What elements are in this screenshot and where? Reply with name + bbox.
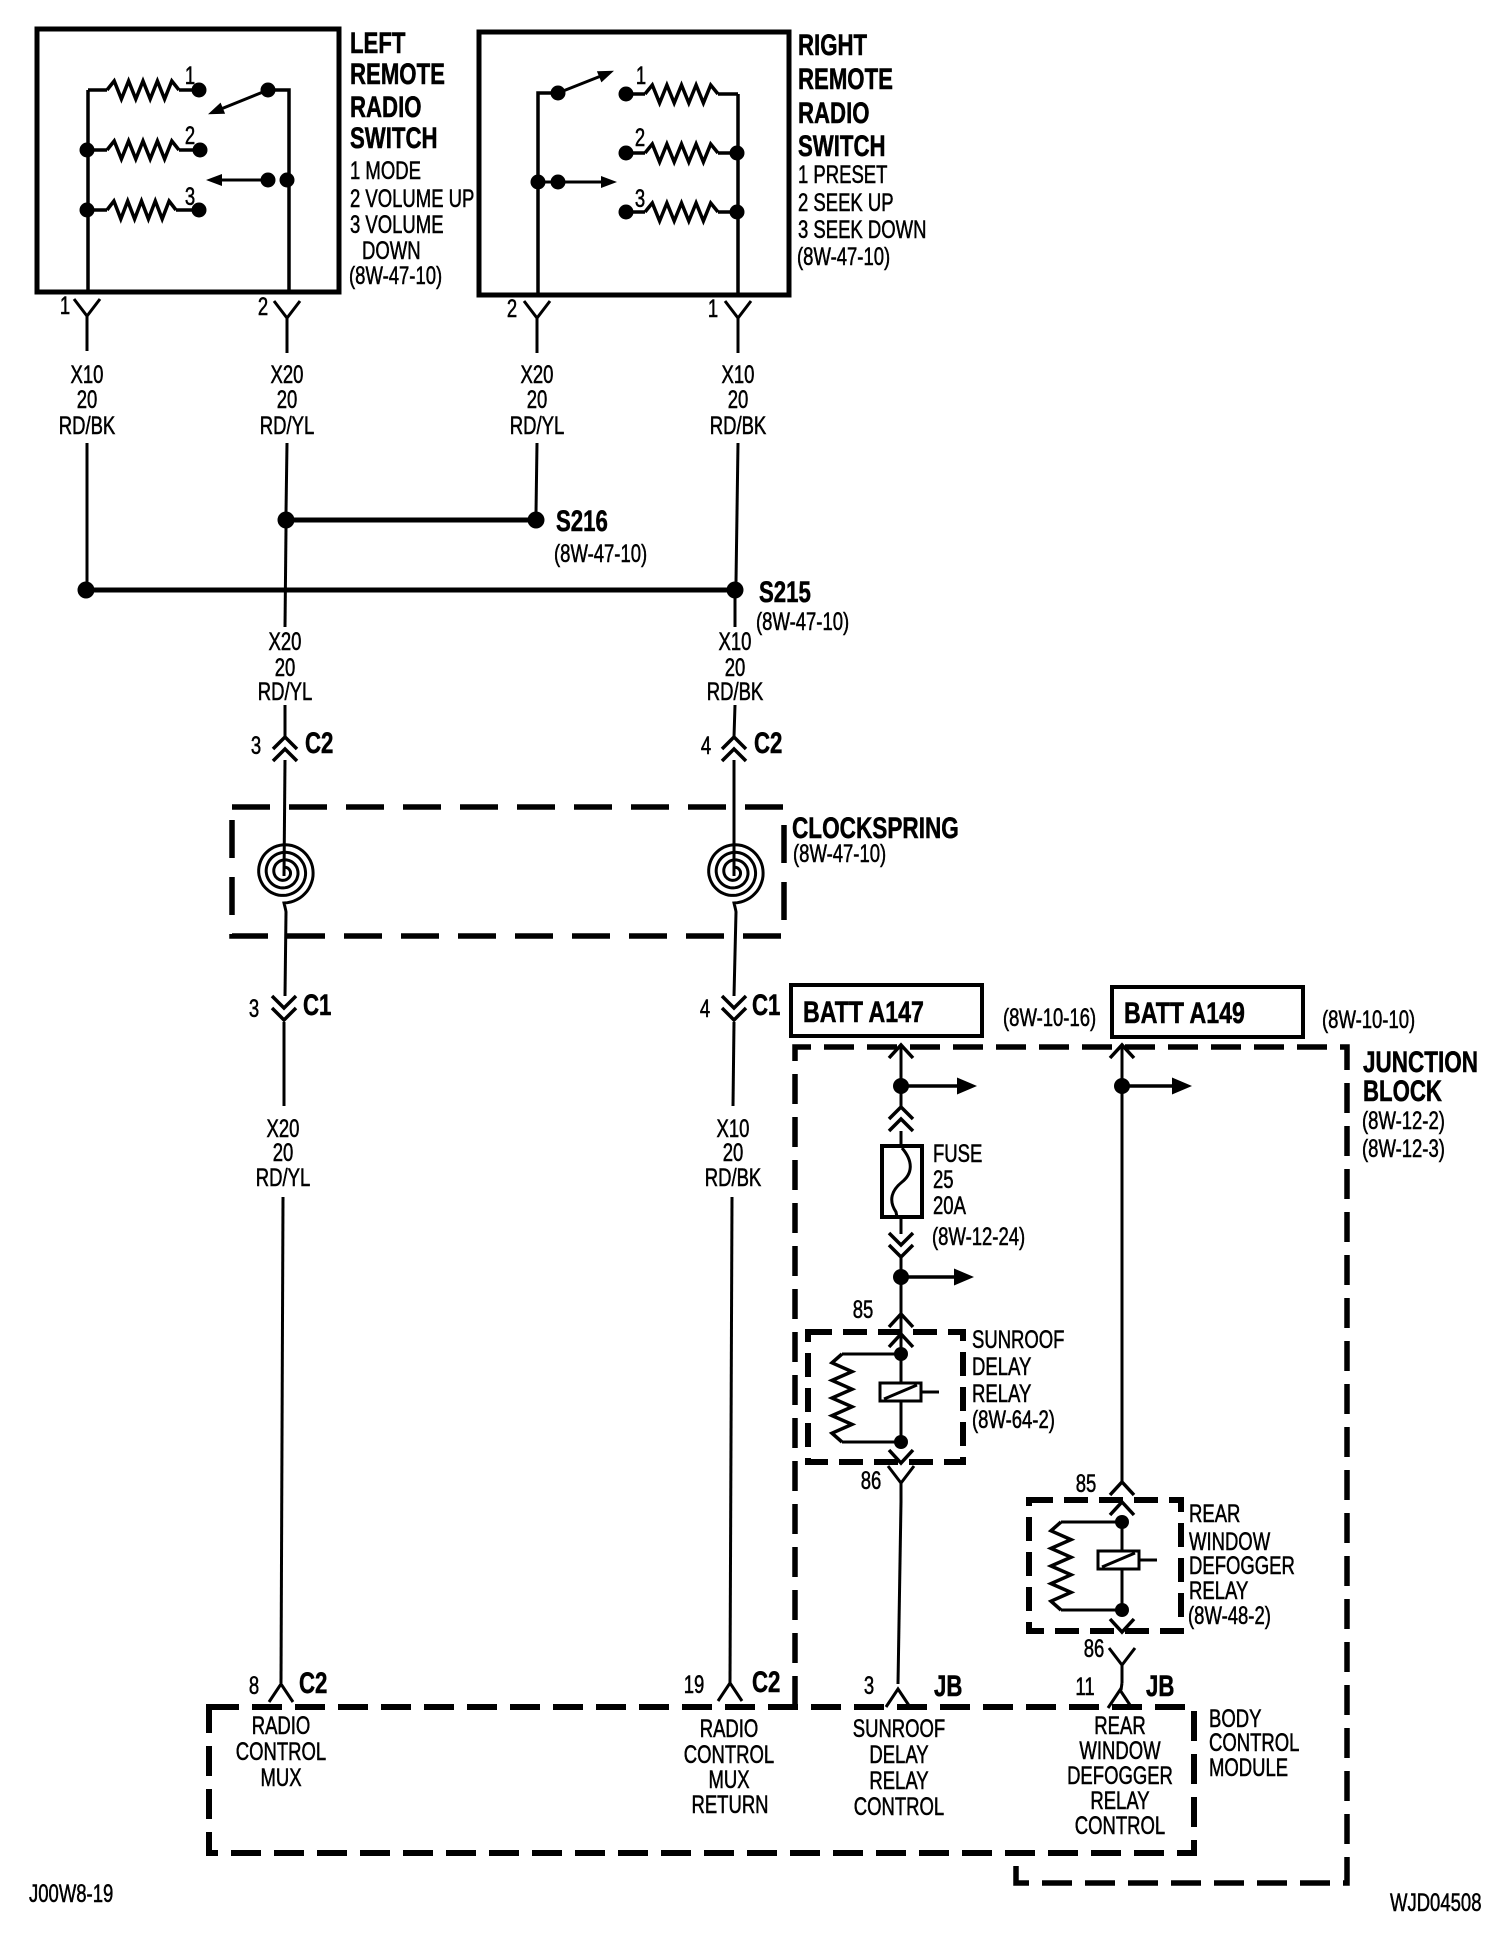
sunroof relay bottom node xyxy=(894,1435,908,1449)
svg-text:3: 3 xyxy=(864,1671,874,1699)
svg-text:19: 19 xyxy=(684,1670,705,1698)
wire sunroof relay control to BCM xyxy=(898,1502,901,1684)
svg-text:FUSE: FUSE xyxy=(933,1139,982,1167)
svg-text:(8W-12-24): (8W-12-24) xyxy=(932,1222,1025,1250)
svg-text:20A: 20A xyxy=(933,1191,966,1219)
svg-text:J00W8-19: J00W8-19 xyxy=(29,1879,113,1907)
wire left bus of right switch xyxy=(538,93,558,295)
svg-text:3: 3 xyxy=(635,184,645,212)
svg-text:86: 86 xyxy=(1084,1634,1105,1662)
clockspring coil left xyxy=(259,845,313,912)
wire to connector C2 pin 4 xyxy=(734,705,735,737)
svg-text:(8W-10-16): (8W-10-16) xyxy=(1003,1003,1096,1031)
svg-text:WJD04508: WJD04508 xyxy=(1390,1888,1481,1916)
wire C2 pin3 into clockspring xyxy=(284,760,285,876)
wire below C1 right xyxy=(733,1022,734,1106)
defogger relay bottom node xyxy=(1115,1603,1129,1617)
svg-text:25: 25 xyxy=(933,1165,954,1193)
svg-text:RD/BK: RD/BK xyxy=(705,1163,762,1191)
sunroof relay pin chevron bottom xyxy=(889,1450,913,1463)
svg-text:BATT A147: BATT A147 xyxy=(803,995,924,1029)
wire right bus of left switch xyxy=(268,90,289,292)
sunroof relay pin chevron top xyxy=(889,1334,913,1347)
svg-text:RD/BK: RD/BK xyxy=(710,411,767,439)
resistor right switch position 2 SEEK UP xyxy=(619,146,634,161)
svg-text:3 SEEK DOWN: 3 SEEK DOWN xyxy=(798,215,926,243)
svg-text:85: 85 xyxy=(1076,1469,1097,1497)
left remote radio switch box xyxy=(37,29,339,292)
resistor left switch position 2 VOLUME UP xyxy=(80,143,95,158)
svg-text:20: 20 xyxy=(728,385,749,413)
BATT A149 feed box xyxy=(1112,987,1303,1037)
switch wiper 2 of right switch xyxy=(531,175,546,190)
wire left bus of left switch xyxy=(86,90,90,292)
svg-text:4: 4 xyxy=(701,731,711,759)
wire defogger relay control to BCM xyxy=(1121,1683,1122,1690)
defogger relay top node xyxy=(1115,1515,1129,1529)
clockspring dashed box xyxy=(232,807,784,936)
svg-text:BLOCK: BLOCK xyxy=(1363,1074,1442,1108)
svg-text:S216: S216 xyxy=(556,504,608,538)
svg-text:3: 3 xyxy=(249,994,259,1022)
svg-text:3 VOLUME: 3 VOLUME xyxy=(350,210,444,238)
svg-text:2 VOLUME UP: 2 VOLUME UP xyxy=(350,184,474,212)
wire segment left pin2 down xyxy=(286,443,287,513)
svg-text:(8W-12-2): (8W-12-2) xyxy=(1362,1106,1445,1134)
svg-text:RD/YL: RD/YL xyxy=(260,411,314,439)
wire C2 pin4 into clockspring xyxy=(733,760,736,876)
wire clockspring right out xyxy=(734,912,736,996)
svg-text:4: 4 xyxy=(700,994,710,1022)
svg-text:(8W-47-10): (8W-47-10) xyxy=(793,839,886,867)
svg-text:RADIO: RADIO xyxy=(350,90,422,124)
switch wiper 1 of left switch xyxy=(261,83,276,98)
svg-text:RADIO: RADIO xyxy=(700,1714,759,1742)
wire from BATT A149 into junction block xyxy=(1110,1045,1134,1058)
svg-text:1: 1 xyxy=(60,291,70,319)
svg-text:1 MODE: 1 MODE xyxy=(350,156,421,184)
svg-text:SUNROOF: SUNROOF xyxy=(853,1714,945,1742)
resistor left switch position 1 MODE xyxy=(88,88,107,92)
svg-text:RD/BK: RD/BK xyxy=(59,411,116,439)
svg-text:RELAY: RELAY xyxy=(869,1766,929,1794)
svg-text:(8W-47-10): (8W-47-10) xyxy=(756,607,849,635)
resistor right switch position 3 SEEK DOWN xyxy=(619,205,634,220)
svg-text:(8W-10-10): (8W-10-10) xyxy=(1322,1005,1415,1033)
sunroof delay relay dashed box xyxy=(808,1332,963,1462)
svg-text:(8W-47-10): (8W-47-10) xyxy=(349,261,442,289)
svg-text:MODULE: MODULE xyxy=(1209,1753,1288,1781)
svg-text:RADIO: RADIO xyxy=(798,96,870,130)
svg-text:(8W-48-2): (8W-48-2) xyxy=(1188,1601,1271,1629)
svg-text:MUX: MUX xyxy=(260,1763,301,1791)
wire from BATT A147 into junction block xyxy=(889,1045,913,1058)
svg-text:C2: C2 xyxy=(752,1665,780,1699)
sunroof relay top node xyxy=(894,1347,908,1361)
svg-text:1: 1 xyxy=(636,61,646,89)
svg-text:CONTROL: CONTROL xyxy=(236,1737,326,1765)
svg-text:RD/YL: RD/YL xyxy=(510,411,564,439)
svg-text:SUNROOF: SUNROOF xyxy=(972,1325,1064,1353)
BATT A147 feed box xyxy=(791,985,982,1036)
svg-text:BATT A149: BATT A149 xyxy=(1124,996,1245,1030)
svg-text:11: 11 xyxy=(1075,1672,1094,1700)
body control module dashed box xyxy=(209,1707,1194,1853)
svg-text:2: 2 xyxy=(185,121,195,149)
svg-text:2: 2 xyxy=(507,294,517,322)
switch wiper 2 of left switch xyxy=(261,173,276,188)
svg-text:REMOTE: REMOTE xyxy=(350,57,445,91)
defogger relay pin chevron top xyxy=(1110,1502,1134,1515)
svg-text:RD/BK: RD/BK xyxy=(707,677,764,705)
svg-text:2 SEEK UP: 2 SEEK UP xyxy=(798,188,894,216)
connector double chevron below fuse xyxy=(889,1233,913,1245)
svg-text:RETURN: RETURN xyxy=(691,1790,768,1818)
svg-text:RELAY: RELAY xyxy=(972,1379,1032,1407)
junction block dashed outline xyxy=(795,1047,1347,1883)
svg-text:85: 85 xyxy=(853,1295,874,1323)
svg-text:JB: JB xyxy=(1146,1669,1174,1703)
svg-text:1 PRESET: 1 PRESET xyxy=(798,160,887,188)
wire to BCM pin 8 xyxy=(281,1197,283,1683)
svg-text:2: 2 xyxy=(258,292,268,320)
svg-text:DELAY: DELAY xyxy=(972,1352,1032,1380)
defogger relay coil resistor xyxy=(1061,1521,1122,1524)
svg-text:RD/YL: RD/YL xyxy=(258,677,312,705)
wire below fuse xyxy=(900,1217,903,1234)
wire segment right pin1 down xyxy=(736,443,738,582)
svg-text:(8W-64-2): (8W-64-2) xyxy=(972,1405,1055,1433)
svg-text:2: 2 xyxy=(635,123,645,151)
svg-text:RADIO: RADIO xyxy=(252,1711,311,1739)
defogger relay coil xyxy=(1121,1522,1124,1551)
svg-text:X10: X10 xyxy=(719,627,752,655)
wire below C1 left xyxy=(283,1022,286,1106)
junction node with feed arrow 2 xyxy=(900,1257,903,1314)
right remote radio switch box xyxy=(479,32,789,295)
wire segment right pin2 down xyxy=(536,443,537,513)
svg-text:REAR: REAR xyxy=(1189,1499,1240,1527)
svg-text:SWITCH: SWITCH xyxy=(798,129,886,163)
svg-text:RIGHT: RIGHT xyxy=(798,28,867,62)
svg-text:C1: C1 xyxy=(303,988,331,1022)
svg-text:CONTROL: CONTROL xyxy=(1075,1811,1165,1839)
svg-text:C1: C1 xyxy=(752,988,780,1022)
svg-text:1: 1 xyxy=(708,294,718,322)
wire to BCM pin 19 xyxy=(730,1197,732,1683)
svg-text:X20: X20 xyxy=(269,627,302,655)
svg-text:20: 20 xyxy=(277,385,298,413)
sunroof relay coil xyxy=(900,1354,903,1383)
svg-text:JB: JB xyxy=(934,1669,962,1703)
svg-text:(8W-47-10): (8W-47-10) xyxy=(554,539,647,567)
wire to connector C2 pin 3 xyxy=(284,705,287,737)
svg-text:3: 3 xyxy=(185,182,195,210)
svg-text:86: 86 xyxy=(861,1466,882,1494)
svg-text:S215: S215 xyxy=(759,575,811,609)
svg-text:CONTROL: CONTROL xyxy=(854,1792,944,1820)
sunroof relay coil resistor xyxy=(842,1353,901,1356)
svg-text:C2: C2 xyxy=(754,726,782,760)
clockspring coil right xyxy=(709,845,763,912)
connector double chevron above fuse xyxy=(889,1107,913,1119)
junction node with feed arrow xyxy=(893,1078,909,1094)
svg-text:20: 20 xyxy=(77,385,98,413)
svg-text:3: 3 xyxy=(251,731,261,759)
svg-text:REMOTE: REMOTE xyxy=(798,62,893,96)
svg-text:LEFT: LEFT xyxy=(350,26,405,60)
svg-text:SWITCH: SWITCH xyxy=(350,121,438,155)
wire right bus of right switch xyxy=(736,94,740,295)
defogger relay pin chevron bottom xyxy=(1110,1619,1134,1632)
svg-text:1: 1 xyxy=(185,61,195,89)
splice S215 xyxy=(78,582,95,599)
rear window defogger relay dashed box xyxy=(1029,1500,1181,1631)
svg-text:DELAY: DELAY xyxy=(869,1740,929,1768)
svg-text:RD/YL: RD/YL xyxy=(256,1163,310,1191)
fuse 25 20A xyxy=(882,1146,922,1217)
wire clockspring left out xyxy=(285,912,286,996)
svg-text:C2: C2 xyxy=(299,1666,327,1700)
wire segment left pin1 down xyxy=(86,443,89,582)
svg-text:(8W-47-10): (8W-47-10) xyxy=(797,242,890,270)
switch wiper 1 of right switch xyxy=(551,86,566,101)
svg-text:(8W-12-3): (8W-12-3) xyxy=(1362,1134,1445,1162)
junction node with feed arrow 3 xyxy=(1114,1078,1130,1094)
resistor right switch position 1 PRESET xyxy=(619,87,634,102)
resistor left switch position 3 VOLUME DOWN xyxy=(80,203,95,218)
wire from S215 down xyxy=(734,598,737,627)
svg-text:8: 8 xyxy=(249,1671,259,1699)
svg-text:C2: C2 xyxy=(305,726,333,760)
splice S216 xyxy=(278,512,295,529)
wire from S216 down xyxy=(285,528,286,627)
svg-text:20: 20 xyxy=(527,385,548,413)
